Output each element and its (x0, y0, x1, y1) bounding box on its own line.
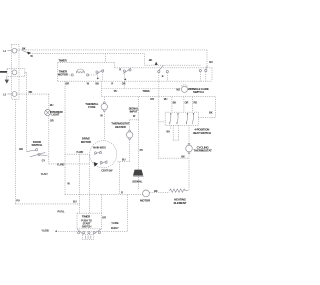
svg-text:NO: NO (176, 87, 180, 91)
svg-text:BK: BK (209, 110, 213, 114)
svg-text:GY: GY (42, 158, 46, 162)
svg-text:BK: BK (173, 100, 177, 104)
svg-text:BK: BK (22, 47, 26, 51)
svg-text:BK: BK (95, 82, 99, 86)
svg-text:MAIN WDG: MAIN WDG (93, 146, 106, 150)
heat switch pole 1 (169, 113, 171, 124)
cycling thermostat (186, 125, 212, 190)
svg-text:TR/BK: TR/BK (142, 89, 150, 93)
push-to-start timer box (77, 213, 106, 229)
wrinkle care switch label (188, 87, 209, 94)
svg-text:SWITCH: SWITCH (32, 143, 43, 147)
heat switch pole 3 (186, 113, 188, 124)
timer connector funnel (77, 229, 102, 240)
heat switch label (193, 128, 211, 135)
svg-text:SIGNAL: SIGNAL (132, 180, 142, 184)
timer contact 4 (199, 66, 207, 82)
wire y158 (158, 154, 189, 158)
wire motor right drop (119, 162, 121, 195)
timer contact 1 (96, 69, 104, 81)
terminal L1 (3, 48, 17, 53)
svg-text:BU: BU (50, 103, 54, 107)
wire labels below timer box (65, 82, 125, 86)
wire drop x89.3 (88, 155, 90, 213)
svg-text:BU: BU (209, 60, 213, 64)
drive motor (81, 137, 117, 173)
wire door line y163.9 (41, 162, 90, 176)
thermal fuse (85, 97, 107, 141)
svg-text:RD: RD (193, 100, 197, 104)
svg-text:PU: PU (16, 199, 20, 203)
wire main bottom line y194.6 (65, 191, 144, 195)
svg-text:BR: BR (65, 82, 69, 86)
svg-text:TIMER: TIMER (82, 215, 91, 219)
svg-text:THERMOSTAT: THERMOSTAT (194, 149, 213, 153)
terminal L2 (3, 92, 17, 97)
svg-text:YL/DB: YL/DB (111, 221, 118, 225)
svg-text:R: R (121, 191, 123, 195)
wire corner x144 (145, 54, 158, 65)
svg-text:BU: BU (73, 200, 77, 204)
svg-text:BU: BU (164, 97, 168, 101)
wire feed line y65 (145, 64, 201, 66)
heat switch pole 2 (176, 113, 178, 124)
svg-text:PU: PU (114, 89, 118, 93)
wire bottom-left line y203.9 (15, 200, 79, 204)
svg-text:R: R (119, 67, 121, 71)
svg-text:R: R (111, 82, 113, 86)
terminal N (0, 68, 25, 76)
timer motor TM (58, 69, 96, 77)
wire stub to heat box (158, 121, 165, 123)
timer contact 2 (119, 67, 131, 88)
svg-text:LIGHT: LIGHT (51, 113, 59, 117)
svg-text:HEAT SWITCH: HEAT SWITCH (193, 131, 211, 135)
wire timer left drop x65 (65, 81, 70, 194)
svg-text:OR: OR (50, 118, 54, 122)
wire bottom bus y231.4 (41, 221, 127, 232)
svg-text:BK: BK (181, 154, 185, 158)
svg-text:OR: OR (185, 100, 189, 104)
heat switch feed drops (172, 97, 197, 113)
heat switch box (165, 112, 198, 125)
ground (5, 77, 9, 84)
start switch M1 (176, 85, 187, 93)
svg-text:FUSE: FUSE (88, 105, 95, 109)
svg-text:BK: BK (154, 189, 158, 193)
wire L1 branch slant (22, 50, 33, 58)
svg-text:TIMER: TIMER (58, 58, 67, 62)
svg-text:SWITCH: SWITCH (82, 224, 92, 228)
door switch (19, 72, 49, 163)
svg-text:SWITCH: SWITCH (193, 90, 204, 94)
thermostat heater (111, 97, 138, 162)
svg-text:HEATER: HEATER (115, 125, 127, 129)
svg-text:YL/DB: YL/DB (41, 229, 48, 233)
wire drop to timer box (105, 54, 107, 63)
heat switch lower drops (167, 125, 179, 140)
svg-text:ELEMENT: ELEMENT (174, 201, 187, 205)
svg-text:PU: PU (140, 148, 144, 152)
svg-text:CENT SW: CENT SW (101, 168, 113, 172)
drum lamp (45, 94, 64, 157)
wire motor to thermostat heater (118, 161, 130, 163)
wire heater feed y96.7 (102, 97, 216, 118)
svg-text:OR: OR (150, 97, 154, 101)
buzzer (132, 120, 143, 190)
timer box (58, 58, 212, 81)
wire right drop from top line (207, 50, 213, 67)
signal input label (129, 106, 139, 113)
svg-text:BU: BU (167, 130, 171, 134)
svg-text:PU/YL: PU/YL (57, 210, 65, 214)
svg-text:YL/RD: YL/RD (76, 150, 83, 154)
wire L1 top line (17, 47, 207, 51)
svg-text:YL/RD: YL/RD (57, 162, 64, 166)
wire left drop from block (15, 99, 20, 204)
svg-text:BU/GY: BU/GY (111, 226, 119, 230)
wire line B (30, 53, 145, 55)
heat switch pole 4 (192, 113, 194, 124)
heater element (170, 189, 189, 205)
svg-text:INPUT: INPUT (130, 110, 138, 114)
svg-text:RD: RD (29, 90, 33, 94)
motor M2 (140, 190, 151, 202)
svg-text:MOTOR: MOTOR (81, 140, 92, 144)
terminal block TB1 (12, 45, 20, 100)
wire drop x79.6 (79, 154, 81, 213)
svg-text:BR: BR (19, 147, 23, 151)
wire motor feed y154 (65, 150, 90, 154)
svg-text:YL/GY: YL/GY (41, 172, 49, 176)
svg-text:MOTOR: MOTOR (140, 198, 151, 202)
svg-text:BU: BU (122, 158, 126, 162)
svg-text:OR: OR (122, 82, 126, 86)
wire L2 line (17, 90, 49, 94)
wire drop x127.3 (126, 195, 128, 232)
timer contact 3 (158, 65, 169, 158)
svg-text:BK: BK (149, 58, 153, 62)
svg-text:OR: OR (102, 216, 106, 220)
wire heater to motor M2 (150, 189, 170, 193)
wire motor feed y88.5 (102, 81, 182, 97)
wire drop x101.6 (101, 195, 103, 214)
